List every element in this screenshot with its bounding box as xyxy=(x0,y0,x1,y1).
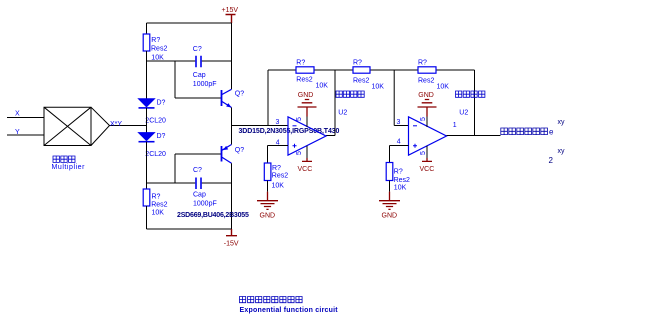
wire op1 output vertical xyxy=(326,70,335,136)
wire feedback top rail xyxy=(268,69,475,71)
svg-text:Exponential function circuit: Exponential function circuit xyxy=(240,307,339,314)
resistor R4 op1 pin4 xyxy=(264,163,288,189)
capacitor C2 xyxy=(193,167,217,208)
svg-text:+15V: +15V xyxy=(222,7,239,14)
svg-text:Res2: Res2 xyxy=(353,77,369,84)
svg-text:xy: xy xyxy=(558,148,566,155)
svg-text:Q?: Q? xyxy=(235,147,244,154)
resistor R1 xyxy=(143,34,167,61)
svg-text:D?: D? xyxy=(157,133,166,140)
svg-text:10K: 10K xyxy=(152,210,165,217)
svg-text:3: 3 xyxy=(276,119,280,126)
svg-text:C?: C? xyxy=(193,167,202,174)
wire branch to Q1 base xyxy=(175,61,221,98)
wire lower node horizontal to cap C2 xyxy=(147,182,232,184)
svg-text:5: 5 xyxy=(420,151,427,155)
svg-text:D?: D? xyxy=(157,100,166,107)
svg-text:R?: R? xyxy=(272,165,281,172)
resistor R5 feedback op1 xyxy=(296,60,328,90)
wire branch to Q2 base xyxy=(175,154,221,183)
svg-text:Y: Y xyxy=(15,129,20,136)
power -15V xyxy=(224,229,239,248)
svg-text:C?: C? xyxy=(193,46,202,53)
ground GND above op1 xyxy=(298,92,317,116)
svg-text:U2: U2 xyxy=(338,110,347,117)
power VCC op1 xyxy=(298,158,313,173)
svg-text:R?: R? xyxy=(418,60,427,67)
resistor R2 top lead xyxy=(146,183,148,189)
svg-text:5: 5 xyxy=(296,151,303,155)
wire op2 input vertical xyxy=(394,70,408,126)
wire diode chain top xyxy=(146,61,148,99)
wire R4 bottom lead xyxy=(267,181,269,192)
wire op1 pin4 xyxy=(268,146,289,164)
ground GND above op2 xyxy=(418,92,437,116)
svg-text:X: X xyxy=(15,111,20,118)
ground GND below op1 pin4 xyxy=(257,192,278,220)
wire bottom rail xyxy=(147,228,232,230)
resistor R8 op2 pin4 xyxy=(386,163,410,192)
wire diode chain bottom xyxy=(146,142,148,183)
svg-text:GND: GND xyxy=(298,92,314,99)
svg-text:Cap: Cap xyxy=(193,72,206,79)
svg-text:Res2: Res2 xyxy=(272,173,288,180)
diode D2 2CL20 xyxy=(139,133,167,158)
label op1 annotation Chinese xyxy=(336,91,364,97)
wire Q2 collector to -15V xyxy=(231,163,233,229)
diode D1 2CL20 xyxy=(139,99,167,125)
svg-text:10K: 10K xyxy=(394,185,407,192)
svg-text:10K: 10K xyxy=(437,84,450,91)
wire emitter node to op-amp1 pin3 xyxy=(232,125,289,127)
svg-text:2CL20: 2CL20 xyxy=(145,151,166,158)
wire +15V rail xyxy=(147,22,232,24)
op1 bottom power pin wire xyxy=(306,146,308,158)
svg-text:GND: GND xyxy=(260,213,276,220)
svg-text:Res2: Res2 xyxy=(296,76,312,83)
wire emitter node vertical xyxy=(231,108,233,145)
svg-text:Multiplier: Multiplier xyxy=(52,164,86,171)
wire op2 output xyxy=(447,135,501,137)
svg-text:1000pF: 1000pF xyxy=(193,201,217,208)
label output result xyxy=(501,128,548,135)
svg-text:3DD15D,2N3055,IRGPS0B,T430: 3DD15D,2N3055,IRGPS0B,T430 xyxy=(239,128,340,135)
svg-text:5: 5 xyxy=(420,117,427,121)
op-amp U2 xyxy=(397,110,469,156)
svg-text:R?: R? xyxy=(152,194,161,201)
svg-text:Res2: Res2 xyxy=(418,77,434,84)
svg-text:R?: R? xyxy=(353,60,362,67)
resistor R7 feedback op2 xyxy=(418,60,449,91)
wire X*Y output to diode node xyxy=(110,125,147,127)
svg-text:2SD669,BU406,2B3055: 2SD669,BU406,2B3055 xyxy=(177,212,249,219)
svg-text:Res2: Res2 xyxy=(151,202,167,209)
wire R2 bottom lead xyxy=(146,206,148,229)
svg-text:1: 1 xyxy=(453,122,457,129)
svg-text:VCC: VCC xyxy=(420,166,435,173)
svg-text:10K: 10K xyxy=(372,84,385,91)
svg-text:GND: GND xyxy=(418,92,434,99)
resistor R6 series xyxy=(353,60,384,91)
svg-text:Res2: Res2 xyxy=(394,177,410,184)
op-amp U1 xyxy=(276,110,348,156)
svg-text:R?: R? xyxy=(394,169,403,176)
svg-text:4: 4 xyxy=(397,139,401,146)
svg-text:U2: U2 xyxy=(459,110,468,117)
svg-text:xy: xy xyxy=(558,119,566,126)
svg-text:-15V: -15V xyxy=(224,241,239,248)
svg-text:R?: R? xyxy=(296,60,305,67)
svg-text:5: 5 xyxy=(296,117,303,121)
label op2 annotation Chinese xyxy=(456,91,485,97)
wire +15V vertical to Q1 collector xyxy=(231,23,233,89)
wire feedback left vertical xyxy=(267,70,269,126)
power +15V xyxy=(222,7,239,23)
svg-text:Res2: Res2 xyxy=(151,45,167,52)
transistor Q2 PNP xyxy=(222,145,245,164)
svg-text:1000pF: 1000pF xyxy=(193,81,217,88)
wire node A horizontal to cap C1 xyxy=(147,60,232,62)
power VCC op2 xyxy=(420,158,435,173)
wire X input xyxy=(7,117,44,119)
wire R8 bottom lead xyxy=(389,181,391,192)
svg-text:10K: 10K xyxy=(272,182,285,189)
svg-text:Cap: Cap xyxy=(193,191,206,198)
svg-text:Q?: Q? xyxy=(235,91,244,98)
svg-text:10K: 10K xyxy=(316,83,329,90)
resistor R2 xyxy=(143,189,167,217)
svg-text:VCC: VCC xyxy=(298,166,313,173)
wire Y input xyxy=(7,134,44,136)
label multiplier Chinese xyxy=(53,156,75,162)
svg-text:X*Y: X*Y xyxy=(110,121,122,128)
svg-text:GND: GND xyxy=(382,213,398,220)
svg-text:10K: 10K xyxy=(151,54,164,61)
wire op2 pin4 xyxy=(390,146,409,163)
resistor R1 top lead wire xyxy=(146,23,148,34)
op2 bottom power pin wire xyxy=(426,146,428,158)
svg-text:2CL20: 2CL20 xyxy=(145,118,166,125)
svg-text:2: 2 xyxy=(549,156,554,165)
wire diode mid node xyxy=(146,108,148,133)
ground GND below op2 pin4 xyxy=(379,192,400,220)
label title Chinese xyxy=(240,297,303,303)
multiplier U? (X*Y block) xyxy=(44,107,110,145)
svg-text:R?: R? xyxy=(151,37,160,44)
capacitor C1 xyxy=(193,46,217,88)
svg-text:3: 3 xyxy=(397,119,401,126)
op1 top power pin wire xyxy=(306,117,308,128)
op2 top power pin wire xyxy=(426,117,428,128)
transistor Q1 NPN xyxy=(222,89,245,107)
wire feedback right vertical xyxy=(474,70,476,136)
svg-text:e: e xyxy=(549,128,554,137)
wire R1 bottom lead xyxy=(146,51,148,61)
